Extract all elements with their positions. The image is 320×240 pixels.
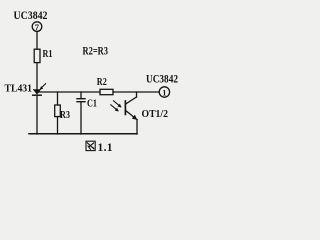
svg-text:7: 7 xyxy=(35,22,40,32)
svg-text:1: 1 xyxy=(162,88,166,98)
svg-text:TL431: TL431 xyxy=(5,84,33,95)
wire emitter to bottom rail xyxy=(136,120,138,134)
svg-text:R2: R2 xyxy=(97,77,107,88)
wire C1 branch top xyxy=(80,92,82,99)
label UC3842 (right IC) xyxy=(146,72,178,86)
label UC3842 (left IC) xyxy=(14,8,48,22)
figure caption 图1.1 xyxy=(86,141,113,154)
bottom rail (ground return) xyxy=(29,133,137,135)
capacitor C1 xyxy=(77,98,97,109)
svg-text:R3: R3 xyxy=(60,110,70,121)
resistor R2 xyxy=(97,77,113,95)
wire R3 branch top xyxy=(57,92,59,105)
note R2=R3 xyxy=(83,45,109,57)
svg-text:UC3842: UC3842 xyxy=(14,8,48,22)
svg-text:C1: C1 xyxy=(87,98,97,109)
svg-text:OT1/2: OT1/2 xyxy=(142,108,169,120)
svg-text:R2=R3: R2=R3 xyxy=(83,45,109,57)
wire pin7 to R1 xyxy=(36,32,38,50)
resistor R3 xyxy=(55,105,70,121)
TL431 shunt regulator xyxy=(5,84,46,96)
optocoupler phototransistor OT1/2 xyxy=(111,92,169,120)
wire C1 to bottom rail xyxy=(80,102,82,134)
svg-text:1.1: 1.1 xyxy=(98,142,113,154)
resistor R1 xyxy=(34,49,52,63)
wire R3 to bottom rail xyxy=(57,117,59,134)
wire TL431 to bottom rail xyxy=(36,95,38,134)
wire R1 to TL431 xyxy=(36,63,38,90)
svg-text:R1: R1 xyxy=(43,49,53,60)
pin 1 circle xyxy=(159,87,169,98)
svg-text:UC3842: UC3842 xyxy=(146,72,178,86)
wire R2 to pin 1 circle xyxy=(113,91,159,93)
wire TL431 cathode node to R2 (main horizontal) xyxy=(37,91,100,93)
pin 7 circle xyxy=(32,22,42,32)
